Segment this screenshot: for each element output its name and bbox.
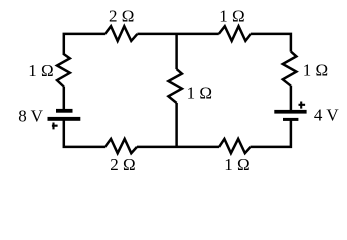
resistor 1Ω (top right, horizontal zigzag) [219, 26, 251, 41]
wire: middle branch lower stub to bottom node [175, 103, 178, 147]
polarity + (8V battery) [52, 123, 58, 130]
wire: middle branch upper stub from top node [175, 34, 178, 69]
wire: top middle segment (2Ω to 1Ω through top node) [137, 33, 218, 36]
wire: bottom-right corner (1Ω to right rail, up to 4V battery) [251, 120, 291, 146]
svg-text:4 V: 4 V [314, 106, 339, 125]
resistor 1Ω (middle branch, vertical zigzag) [168, 69, 182, 103]
wire: bottom-left corner (8V battery down to bottom rail, to 2Ω) [64, 120, 106, 147]
svg-text:1 Ω: 1 Ω [219, 7, 244, 26]
resistor 1Ω (right branch, vertical zigzag) [283, 52, 297, 86]
wire: top-left corner (left rail up to top rail, to 2Ω) [64, 34, 106, 55]
wire: right rail between resistor and 4V battery [290, 86, 293, 111]
battery 8V (left source, short negative plate + long positive plate) [48, 109, 81, 121]
resistor 2Ω (bottom left, horizontal zigzag) [105, 139, 137, 153]
svg-text:1 Ω: 1 Ω [28, 61, 53, 80]
wire: bottom middle segment (2Ω to 1Ω through bottom node) [137, 146, 219, 149]
resistor 2Ω (top left, horizontal zigzag) [105, 26, 137, 41]
svg-text:2 Ω: 2 Ω [109, 7, 134, 26]
svg-text:8 V: 8 V [18, 106, 43, 125]
svg-text:2 Ω: 2 Ω [110, 155, 135, 174]
svg-text:1 Ω: 1 Ω [187, 83, 212, 102]
svg-text:1 Ω: 1 Ω [303, 61, 328, 80]
svg-text:1 Ω: 1 Ω [224, 155, 249, 174]
resistor 1Ω (left branch, vertical zigzag) [57, 54, 70, 86]
battery 4V (right source, long positive plate + short negative plate) [274, 110, 306, 121]
wire: left rail between resistor and 8V battery [63, 87, 66, 110]
wire: top-right corner (1Ω to right rail, down) [251, 34, 291, 52]
polarity + (4V battery) [299, 102, 306, 109]
resistor 1Ω (bottom right, horizontal zigzag) [219, 139, 250, 153]
